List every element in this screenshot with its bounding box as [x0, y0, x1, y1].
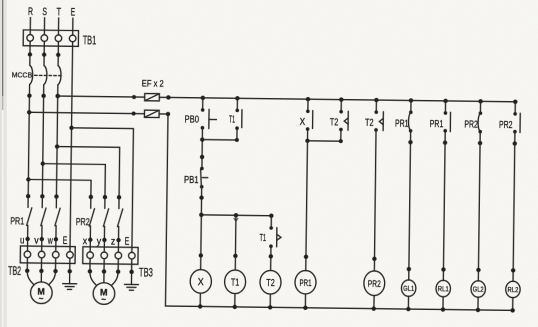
wire bottom control bus L2 — [165, 306, 512, 310]
wire E TB3 out — [130, 259, 132, 284]
feed arrow T1 coil — [234, 218, 238, 221]
junction bus PR2b branch — [513, 100, 517, 104]
breaker MCCB pole R — [30, 65, 33, 84]
wire S TB1 to MCCB — [43, 41, 45, 65]
junction bus PR2 bottom — [372, 306, 376, 310]
junction bus PR1b branch — [443, 99, 447, 103]
junction A PB1 top — [200, 155, 204, 159]
contact PR2 NC aux — [513, 102, 520, 134]
junction fuse EF1 left — [132, 95, 136, 99]
ground motor1 — [63, 284, 77, 290]
junction bus RL1 bottom — [441, 307, 445, 311]
junction E below TB2 — [67, 269, 71, 273]
junction bus T2b branch — [374, 98, 378, 102]
wire fuse EF2 to return rail — [157, 114, 168, 306]
lamp GL2 — [471, 281, 486, 298]
wire lamp RL2 to bus — [512, 298, 514, 311]
junction R above MCCB — [28, 52, 32, 56]
relay coil PR1 — [295, 270, 316, 294]
junction PR2b bottom — [513, 141, 517, 145]
wire u to motor1 — [27, 271, 34, 285]
wire v TB2 out — [40, 258, 42, 271]
junction PR1b bottom — [443, 140, 447, 144]
junction bus X branch — [306, 97, 310, 101]
junction bus X bottom — [198, 304, 202, 308]
junction feed row T1 coil — [234, 213, 238, 217]
junction bus T2a branch — [339, 97, 343, 101]
terminal block TB3 — [83, 247, 138, 264]
junction u below TB2 — [25, 269, 29, 273]
junction fuse EF2 left — [132, 112, 136, 116]
wire coil T1 to bus — [234, 294, 236, 307]
lamp RL2 — [506, 281, 521, 298]
junction T above MCCB — [56, 53, 60, 57]
contactor PR2 pole y — [102, 195, 109, 242]
contact X NO aux — [306, 99, 313, 141]
wire w TB2 out — [55, 258, 57, 271]
wire R lead-in — [29, 17, 31, 34]
junction w below TB2 — [53, 269, 57, 273]
junction bus GL2 bottom — [476, 308, 480, 312]
junction x below TB3 — [88, 269, 92, 273]
junction RL2 above lamp — [511, 268, 515, 272]
junction R fuse feed — [27, 110, 31, 114]
wire x TB3 out — [89, 258, 91, 271]
contactor PR1 pole v — [40, 194, 47, 241]
wire A PB1 to coil X — [201, 187, 202, 270]
wire x into TB3 — [89, 240, 91, 252]
junction feed row corner — [269, 214, 273, 218]
junction GL2 above lamp — [476, 268, 480, 272]
terminal block TB2 — [20, 246, 75, 263]
wire PR1b to lamp RL1 — [443, 131, 445, 281]
junction T branch corner — [55, 144, 59, 148]
junction y below TB3 — [102, 269, 106, 273]
wire R to fuse EF2 — [29, 112, 144, 113]
wire u TB2 out — [26, 258, 28, 271]
contactor PR2 pole x — [88, 195, 95, 242]
pushbutton PB0 NC — [201, 98, 217, 130]
wire T TB1 to MCCB — [57, 42, 59, 66]
junction A feed row — [199, 213, 203, 217]
junction X T2 join — [305, 139, 309, 143]
wire x to motor2 — [90, 271, 97, 285]
wire T branch to TB3 z — [56, 147, 119, 198]
junction T1 above coil — [233, 254, 237, 258]
wire T1 parallel join — [202, 139, 237, 141]
junction T2a join end — [339, 139, 343, 143]
wire w to motor1 — [49, 271, 56, 285]
wire E lead-in — [72, 18, 74, 35]
relay coil PR2 — [364, 271, 385, 296]
wire X branch to coil PR1 — [306, 141, 308, 271]
wire T2 branch upper — [270, 216, 272, 228]
junction fuse EF2 out — [166, 112, 170, 116]
junction A T1 join — [200, 137, 204, 141]
wire A PB0 to PB1 — [201, 128, 204, 169]
junction bus T1 bottom — [233, 305, 237, 309]
wire X T2 parallel join — [307, 140, 340, 142]
wire y TB3 out — [103, 259, 105, 272]
junction S branch corner — [41, 161, 45, 165]
relay coil X — [190, 269, 211, 293]
wire z TB3 out — [117, 259, 119, 272]
junction bus T2 bottom — [268, 305, 272, 309]
wire top control bus L1 — [159, 97, 515, 101]
junction RL1 above lamp — [441, 267, 445, 271]
junction S above MCCB — [42, 52, 46, 56]
wire T to fuse EF1 — [58, 96, 145, 97]
wire lamp RL1 to bus — [442, 297, 444, 310]
wire E TB2 out — [69, 258, 71, 283]
wire PR2a to lamp GL2 — [478, 132, 480, 281]
junction PR1a bottom — [408, 140, 412, 144]
timer coil T1 — [224, 270, 245, 294]
wire coil PR2 to bus — [373, 296, 375, 309]
junction bus A top — [201, 96, 205, 100]
junction bus PR2a branch — [478, 99, 482, 103]
wire T2 branch to coil — [270, 246, 272, 270]
motor M2 — [93, 283, 115, 305]
motor M1 — [30, 282, 52, 304]
junction fuse EF1 out — [166, 95, 170, 99]
wire coil PR1 to bus — [304, 294, 306, 308]
contactor PR2 pole z — [116, 195, 123, 242]
contactor PR1 pole u — [25, 194, 32, 241]
contact T1 NO aux — [235, 98, 242, 140]
wire y to motor2 — [103, 272, 105, 283]
junction A PB1 bottom — [199, 195, 203, 199]
wire S lead-in — [43, 18, 45, 35]
junction A above coil — [199, 253, 203, 257]
pushbutton PB1 NO — [200, 167, 208, 189]
fuse EF2 — [144, 110, 159, 117]
wire T MCCB out — [56, 85, 57, 197]
junction E branch — [69, 126, 73, 130]
wire PR2b to lamp RL2 — [513, 132, 515, 282]
wire y into TB3 — [103, 240, 105, 252]
contact PR1 NC aux — [443, 101, 450, 133]
junction bus PR1 bottom — [303, 306, 307, 310]
wire E TB1 down — [70, 42, 73, 252]
contactor PR1 pole w — [54, 194, 61, 241]
lamp GL1 — [401, 280, 416, 297]
wire T lead-in — [57, 18, 59, 35]
contact T2 NO timed b — [374, 100, 383, 132]
wire coil X to bus — [199, 293, 201, 306]
junction bus PR1a branch — [409, 98, 413, 102]
junction GL1 above lamp — [407, 267, 411, 271]
breaker MCCB pole S — [44, 65, 47, 84]
wire T2b to coil PR2 — [374, 130, 376, 271]
wire T1 coil branch — [234, 215, 237, 270]
wire feed row to T2 branch — [201, 214, 271, 217]
ground motor2 — [124, 284, 138, 290]
breaker MCCB pole T — [58, 66, 61, 85]
junction R branch corner — [26, 177, 30, 181]
junction S MCCB bottom — [41, 94, 45, 98]
timer coil T2 — [260, 270, 281, 294]
junction R MCCB bottom — [27, 93, 31, 97]
junction E below TB3 — [129, 270, 133, 274]
junction bus GL1 bottom — [406, 307, 410, 311]
contact T1 NC timed — [269, 226, 281, 248]
wire z into TB3 — [117, 240, 119, 252]
fuse EF1 — [145, 94, 160, 101]
MCCB linkage dashed — [35, 74, 61, 76]
wire lamp GL1 to bus — [407, 296, 409, 309]
lamp RL1 — [436, 280, 451, 297]
junction T2 above coil — [269, 254, 273, 258]
wire R branch to TB3 x — [28, 179, 91, 196]
junction T MCCB bottom — [55, 94, 59, 98]
junction bus T1 branch — [235, 96, 239, 100]
junction v below TB2 — [39, 269, 43, 273]
terminal block TB1 — [23, 30, 78, 46]
junction PR2a bottom — [478, 141, 482, 145]
wire E branch to TB3 — [70, 128, 133, 253]
wire z to motor2 — [111, 272, 118, 286]
wire v into TB2 — [41, 239, 43, 251]
contact T2 NO timed a — [339, 100, 348, 142]
junction PR2 above coil — [372, 257, 376, 261]
wire S MCCB out — [42, 85, 43, 197]
wire R MCCB out — [28, 85, 29, 197]
junction T1 join end — [235, 138, 239, 142]
wire v to motor1 — [40, 271, 42, 282]
scan edge artifacts — [0, 0, 2, 327]
wire u into TB2 — [26, 239, 28, 251]
wire coil T2 to bus — [269, 294, 271, 307]
wire S branch to TB3 y — [42, 164, 105, 197]
junction T fuse feed — [55, 94, 59, 98]
contact PR1 NO aux — [408, 100, 412, 132]
junction z below TB3 — [116, 269, 120, 273]
wire lamp GL2 to bus — [477, 297, 479, 310]
junction bus RL2 bottom — [510, 308, 514, 312]
wire R TB1 to MCCB — [29, 41, 31, 65]
junction PR1 above coil — [304, 255, 308, 259]
wire PR1a to lamp GL1 — [409, 131, 411, 280]
contact PR2 NO aux — [478, 101, 482, 133]
wire w into TB2 — [55, 239, 57, 251]
